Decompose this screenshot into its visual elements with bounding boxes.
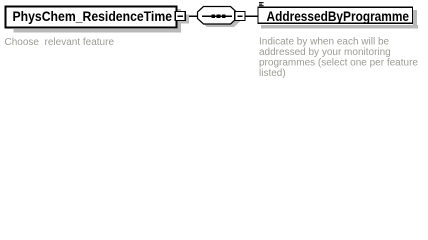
sequence compositor (octagon) (198, 7, 237, 25)
element AddressedByProgramme shadow (261, 10, 418, 28)
sequence dot 1 (211, 15, 215, 19)
svg-text:programmes (select one per fea: programmes (select one per feature (259, 58, 418, 69)
expand box (minus) on PhysChem_ResidenceTime shadow (179, 14, 190, 23)
element AddressedByProgramme box (258, 7, 413, 23)
wire from PhysChem_ResidenceTime to sequence (185, 16, 198, 17)
sequence inner line (202, 16, 232, 17)
sequence dot 2 (217, 15, 221, 19)
svg-text:PhysChem_ResidenceTime: PhysChem_ResidenceTime (13, 9, 173, 24)
element PhysChem_ResidenceTime box (6, 7, 177, 28)
element PhysChem_ResidenceTime shadow (14, 9, 182, 33)
svg-text:listed): listed) (259, 68, 286, 79)
svg-text:AddressedByProgramme: AddressedByProgramme (267, 9, 410, 24)
expand box (minus) on sequence (235, 11, 245, 20)
sequence dot 3 (222, 15, 226, 19)
svg-text:Choose relevant feature: Choose relevant feature (5, 37, 115, 48)
expand box (minus) on PhysChem_ResidenceTime (175, 11, 185, 20)
annotation icon on AddressedByProgramme (259, 2, 264, 6)
sequence compositor shadow (201, 10, 240, 28)
svg-text:addressed by your monitoring: addressed by your monitoring (259, 47, 391, 58)
svg-text:Indicate by when each will be: Indicate by when each will be (259, 37, 390, 48)
wire from sequence to AddressedByProgramme (245, 16, 258, 17)
